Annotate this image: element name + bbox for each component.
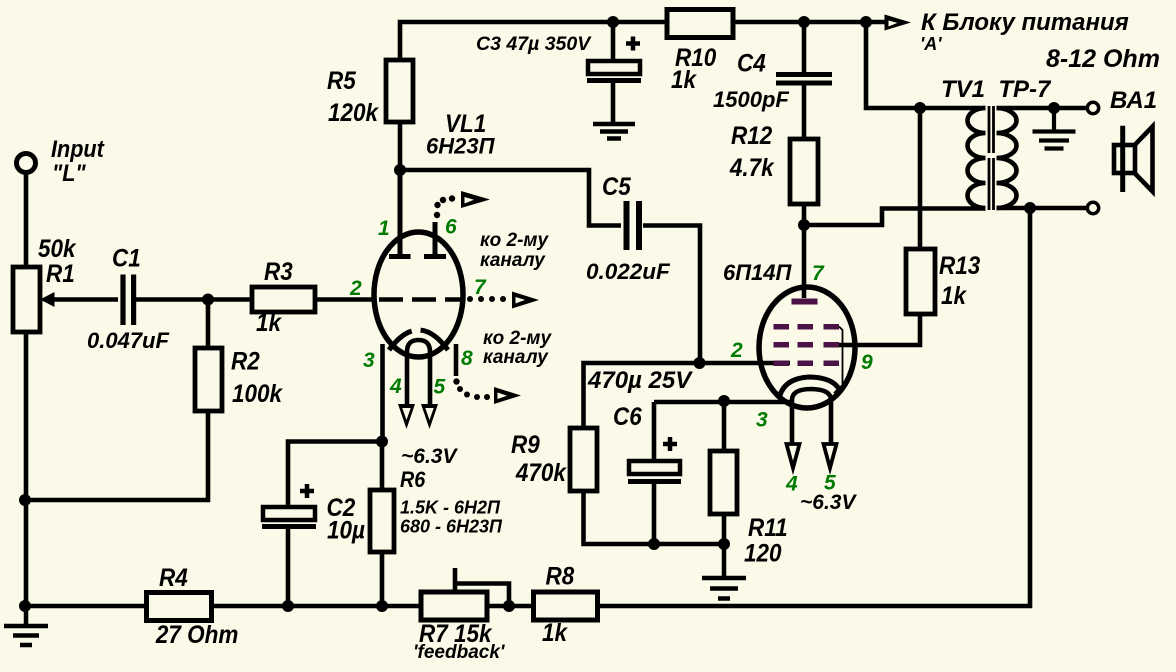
C3 plus sign — [626, 37, 640, 51]
capacitor C6 (electrolytic) — [652, 402, 657, 461]
node secondary bottom feedback — [1024, 202, 1036, 214]
svg-text:C5: C5 — [602, 173, 631, 201]
svg-text:ко 2-му: ко 2-му — [483, 328, 552, 349]
svg-text:2: 2 — [730, 339, 743, 362]
resistor R8 — [534, 592, 598, 620]
svg-text:8: 8 — [461, 347, 473, 370]
dotted arrow pin7 to 2nd channel — [467, 296, 506, 302]
wire C5 to pentode grid node — [643, 226, 700, 364]
node secondary top ground — [1048, 102, 1060, 114]
svg-text:1: 1 — [378, 217, 390, 240]
VL1 pin 8 stub — [454, 344, 459, 376]
wire grid node to pentode — [700, 361, 791, 366]
wire secondary bottom — [997, 206, 1088, 211]
svg-text:8-12 Ohm: 8-12 Ohm — [1046, 45, 1160, 73]
C2 plus sign — [300, 484, 314, 498]
capacitor C3 (electrolytic) — [611, 22, 616, 61]
svg-text:1k: 1k — [671, 66, 698, 94]
node C4 top — [798, 16, 810, 28]
wire node to transformer primary bottom — [804, 209, 986, 226]
svg-text:R11: R11 — [748, 514, 788, 542]
svg-text:C4: C4 — [737, 49, 766, 77]
svg-text:~6.3V: ~6.3V — [401, 445, 458, 468]
pentode heater — [792, 389, 831, 445]
svg-text:4: 4 — [389, 375, 402, 398]
resistor R9 — [570, 428, 597, 491]
ground bottom left — [4, 606, 48, 645]
resistor R7 feedback pot — [421, 592, 487, 620]
dotted arrow pin6 to 2nd channel — [434, 195, 455, 218]
svg-text:470µ 25V: 470µ 25V — [587, 367, 693, 394]
svg-text:R3: R3 — [264, 258, 293, 286]
svg-text:R2: R2 — [231, 347, 260, 375]
pentode anode bar — [792, 299, 818, 305]
R7 wiper tap — [455, 568, 509, 606]
svg-text:каналу: каналу — [483, 347, 549, 368]
wire wiper to C1 — [52, 297, 118, 302]
svg-text:7: 7 — [474, 276, 487, 299]
wire R2 top — [206, 300, 211, 349]
node left y500 — [19, 494, 31, 506]
node R6 bottom — [376, 600, 388, 612]
wire R1 bottom down — [24, 332, 29, 606]
svg-text:27 Ohm: 27 Ohm — [155, 621, 238, 649]
R1 wiper arrow — [40, 292, 55, 307]
node R2 top — [202, 294, 214, 306]
capacitor C5 — [627, 201, 640, 250]
node transformer branch — [860, 16, 872, 28]
ground under R11 — [702, 544, 746, 599]
svg-text:3: 3 — [756, 409, 768, 432]
wire node to C5 — [400, 170, 621, 226]
node left y605 — [19, 600, 31, 612]
svg-text:0.022uF: 0.022uF — [586, 259, 671, 284]
node R11 top — [718, 395, 730, 407]
svg-text:ВА1: ВА1 — [1110, 87, 1157, 114]
VL1 cathode — [389, 330, 448, 350]
VL1 pin 3 wire — [380, 344, 385, 442]
svg-text:"L": "L" — [52, 159, 87, 186]
resistor R13 — [918, 108, 923, 249]
ground under C3 — [593, 124, 635, 139]
svg-text:1.5K - 6Н2П: 1.5K - 6Н2П — [400, 498, 501, 518]
svg-text:4: 4 — [785, 473, 798, 496]
capacitor C1 — [123, 275, 134, 326]
svg-text:5: 5 — [434, 376, 446, 399]
wire pentode grid node to R9 — [584, 363, 700, 429]
svg-text:1k: 1k — [542, 619, 569, 647]
VL1 grid dashed — [379, 297, 462, 302]
wire transformer branch down — [866, 22, 986, 108]
node A1 (anode VL1 / C5) — [394, 164, 406, 176]
pentode heater arrow 4 — [787, 444, 800, 468]
svg-text:R1: R1 — [46, 260, 75, 288]
svg-text:R6: R6 — [400, 468, 426, 492]
svg-text:120: 120 — [744, 539, 782, 567]
node C3 top — [607, 16, 619, 28]
svg-text:6П14П: 6П14П — [723, 260, 793, 285]
wire top rail B+ — [400, 22, 889, 60]
pentode cathode — [779, 377, 839, 399]
VL1 heater — [407, 340, 430, 404]
wire C1 to R3 — [136, 297, 252, 302]
svg-text:C6: C6 — [613, 403, 642, 431]
input terminal — [17, 154, 36, 173]
node R7 tap — [503, 600, 515, 612]
svg-text:4.7k: 4.7k — [729, 154, 775, 182]
resistor R4 — [147, 593, 212, 621]
svg-text:120k: 120k — [328, 99, 380, 127]
resistor R12 — [790, 139, 818, 204]
wire secondary top — [997, 106, 1088, 111]
node pentode grid — [694, 357, 706, 369]
wire cathode node to C2 — [288, 442, 382, 508]
svg-text:C3 47µ 350V: C3 47µ 350V — [476, 33, 592, 55]
triode VL1 envelope — [374, 232, 463, 357]
svg-text:470k: 470k — [515, 459, 568, 487]
svg-text:'feedback': 'feedback' — [413, 642, 506, 663]
svg-text:6: 6 — [445, 216, 457, 239]
svg-text:каналу: каналу — [480, 250, 546, 271]
svg-text:680 - 6Н23П: 680 - 6Н23П — [400, 517, 503, 537]
svg-text:'А': 'А' — [920, 34, 942, 54]
wire R13 to pin 9 — [855, 314, 920, 345]
VL1 pin 6 stub — [424, 222, 446, 257]
potentiometer R1 — [13, 267, 40, 332]
svg-text:100k: 100k — [232, 380, 284, 408]
node R13 top — [914, 102, 926, 114]
transformer core — [989, 106, 994, 210]
arrow to power supply A — [885, 15, 912, 31]
C6 plus sign — [663, 437, 677, 451]
wire pentode cathode — [654, 400, 791, 405]
bottom rail wires — [25, 208, 1030, 606]
svg-text:C1: C1 — [112, 244, 141, 272]
transformer TV1 primary winding — [968, 108, 986, 208]
terminal BA1 bottom — [1087, 202, 1098, 213]
pentode 6P14P envelope — [759, 287, 855, 408]
svg-text:R12: R12 — [731, 122, 772, 150]
resistor R3 — [252, 287, 315, 312]
pentode heater arrow 5 — [824, 444, 837, 468]
svg-text:R8: R8 — [546, 562, 575, 590]
capacitor C2 (electrolytic) — [263, 507, 315, 520]
pentode anode pin 7 — [802, 225, 807, 298]
svg-text:2: 2 — [349, 277, 362, 300]
pentode beam plate line — [834, 327, 843, 394]
svg-text:1k: 1k — [256, 309, 283, 337]
wire R12 bottom to node — [802, 204, 807, 225]
transformer TV1 secondary winding — [997, 108, 1017, 208]
resistor R5 — [386, 60, 413, 122]
svg-text:R4: R4 — [159, 564, 188, 592]
svg-text:ко 2-му: ко 2-му — [480, 230, 549, 251]
wire R3 to VL1 grid — [315, 297, 376, 302]
pentode grid rows — [774, 324, 840, 366]
speaker BA1 — [1114, 145, 1135, 173]
svg-text:7: 7 — [812, 262, 825, 285]
svg-text:10µ: 10µ — [327, 516, 365, 544]
capacitor C4 — [802, 22, 807, 72]
svg-text:R9: R9 — [511, 431, 540, 459]
node R12/anode/primary — [798, 219, 810, 231]
wire R5 bottom to node — [398, 122, 403, 170]
resistor R6 — [380, 442, 385, 490]
node R11 bottom — [718, 538, 730, 550]
svg-text:R5: R5 — [327, 67, 356, 95]
terminal BA1 top — [1087, 102, 1098, 113]
svg-text:9: 9 — [861, 351, 873, 374]
svg-text:6Н23П: 6Н23П — [426, 134, 496, 159]
VL1 anode pin 1 — [389, 170, 411, 257]
svg-text:3: 3 — [363, 349, 375, 372]
svg-text:К Блоку питания: К Блоку питания — [921, 9, 1129, 36]
svg-text:5: 5 — [824, 472, 836, 495]
wire R2 bottom — [25, 410, 208, 500]
wire input to R1 — [24, 171, 29, 269]
heater arrow 5 — [421, 404, 438, 429]
resistor R11 — [722, 401, 727, 452]
svg-text:R13: R13 — [939, 252, 980, 280]
node VL1 cathode junction — [376, 436, 388, 448]
heater arrow 4 — [398, 404, 415, 429]
dotted arrow pin8 to 2nd channel — [453, 378, 490, 400]
node C6 bottom — [648, 538, 660, 550]
svg-text:0.047uF: 0.047uF — [87, 328, 169, 353]
pentode pin 9 wire — [839, 343, 855, 348]
svg-text:TV1 ТР-7: TV1 ТР-7 — [941, 76, 1052, 103]
wire R9 bottom — [584, 490, 725, 544]
svg-text:1500pF: 1500pF — [713, 87, 789, 112]
svg-text:1k: 1k — [941, 282, 968, 310]
ground at secondary top — [1033, 108, 1076, 149]
resistor R10 — [667, 10, 733, 38]
node C2 bottom — [282, 600, 294, 612]
resistor R2 — [195, 348, 222, 411]
